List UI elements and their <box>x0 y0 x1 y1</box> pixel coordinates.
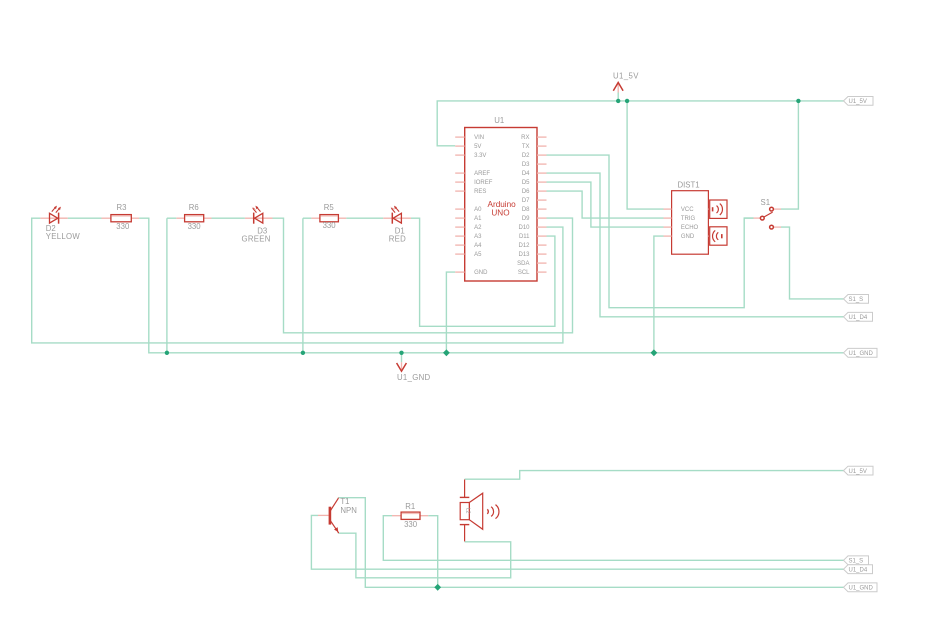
wire U1 D4 to flag U1_D4 <box>547 173 844 317</box>
wire U1_5V drop to S1 top throw <box>781 101 798 209</box>
svg-text:YELLOW: YELLOW <box>46 232 81 241</box>
LED D2 YELLOW <box>40 206 80 241</box>
svg-text:D2: D2 <box>522 153 530 159</box>
svg-text:5V: 5V <box>474 144 481 150</box>
svg-text:A1: A1 <box>474 216 482 222</box>
svg-text:A2: A2 <box>474 225 482 231</box>
U1 left pin stubs <box>455 137 465 272</box>
wire U1 D6 to DIST1 TRIG <box>547 191 664 218</box>
svg-text:R1: R1 <box>405 502 415 511</box>
svg-text:GND: GND <box>681 234 695 240</box>
net flag U1_GND bottom <box>844 583 878 592</box>
svg-text:U1_5V: U1_5V <box>849 469 867 475</box>
sensor DIST1 <box>664 180 728 254</box>
net flag U1_D4 bottom <box>844 565 873 574</box>
op-amp U1 Arduino UNO <box>465 116 537 281</box>
svg-text:VCC: VCC <box>681 207 694 213</box>
wire S1 common stub <box>744 217 753 219</box>
svg-text:A4: A4 <box>474 243 482 249</box>
svg-text:D9: D9 <box>522 216 530 222</box>
svg-text:A0: A0 <box>474 207 482 213</box>
svg-text:U1_D4: U1_D4 <box>849 568 868 574</box>
svg-text:RES: RES <box>474 189 486 195</box>
svg-text:L2: L2 <box>465 508 471 514</box>
resistor R5 <box>311 203 346 230</box>
wire T1 collector to flag U1_GND bottom <box>338 498 843 588</box>
svg-text:VIN: VIN <box>474 135 484 141</box>
svg-text:SDA: SDA <box>517 261 529 267</box>
svg-text:D13: D13 <box>518 252 530 258</box>
svg-text:D5: D5 <box>522 180 530 186</box>
wire R6 to D3 wiring <box>212 217 245 219</box>
svg-text:S1_S: S1_S <box>849 559 864 565</box>
junction dot bottom rail <box>434 584 441 591</box>
svg-text:330: 330 <box>188 222 202 231</box>
svg-text:D10: D10 <box>518 225 530 231</box>
svg-text:U1_GND: U1_GND <box>849 586 874 592</box>
svg-text:AREF: AREF <box>474 171 490 177</box>
svg-text:U1: U1 <box>494 116 504 125</box>
power flag U1_GND arrow <box>397 353 431 382</box>
svg-text:U1_5V: U1_5V <box>613 72 639 81</box>
svg-text:3.3V: 3.3V <box>474 153 486 159</box>
svg-text:U1_GND: U1_GND <box>849 351 874 357</box>
svg-text:D4: D4 <box>522 171 530 177</box>
svg-text:D8: D8 <box>522 207 530 213</box>
svg-text:R5: R5 <box>324 203 335 212</box>
wire DIST1 GND leg to ground rail <box>654 236 664 353</box>
svg-text:RX: RX <box>521 135 529 141</box>
LED D1 RED <box>383 206 411 244</box>
svg-text:T1: T1 <box>340 497 349 506</box>
svg-text:RED: RED <box>389 234 406 243</box>
U1 right pin labels <box>517 135 530 276</box>
wire speaker top to flag U1_5V bottom <box>465 471 844 480</box>
speaker LS <box>460 480 499 542</box>
wire R5 left leg to ground rail <box>303 218 312 353</box>
svg-text:S1: S1 <box>761 198 771 207</box>
wire U1_5V top rail <box>437 101 843 146</box>
net flag U1_GND top <box>844 348 878 357</box>
resistor R3 <box>102 203 140 231</box>
junction dots ground rail <box>165 349 658 356</box>
net flag U1_5V bottom <box>844 466 874 475</box>
svg-text:U1_5V: U1_5V <box>849 99 867 105</box>
wire ground rail R3 to flag U1_GND <box>139 218 843 353</box>
wire U1 D9 to D3 anode <box>273 218 573 333</box>
svg-text:IOREF: IOREF <box>474 180 493 186</box>
net flag U1_5V top <box>844 97 874 106</box>
svg-text:A3: A3 <box>474 234 482 240</box>
LED D3 GREEN <box>242 206 273 244</box>
svg-text:D11: D11 <box>519 234 530 240</box>
svg-text:R6: R6 <box>189 203 199 212</box>
wire U1 D11 to D1 anode <box>411 218 555 326</box>
svg-text:330: 330 <box>323 221 337 230</box>
svg-text:U1_D4: U1_D4 <box>849 315 868 321</box>
switch S1 <box>754 198 782 229</box>
svg-text:SCL: SCL <box>518 270 530 276</box>
svg-text:R3: R3 <box>117 203 127 212</box>
wire T1 base to flag U1_D4 bottom <box>311 515 843 569</box>
resistor R6 <box>167 203 212 231</box>
resistor R1 <box>392 502 428 529</box>
svg-text:GREEN: GREEN <box>242 234 271 243</box>
power flag U1_5V arrow <box>613 72 639 101</box>
svg-text:A5: A5 <box>474 252 482 258</box>
wire U1 D10 to D2 anode <box>32 218 563 343</box>
wire U1 GND pin to ground rail <box>446 272 455 353</box>
wire R5 to D1 wiring <box>346 217 383 219</box>
svg-text:S1_S: S1_S <box>849 297 864 303</box>
svg-text:ECHO: ECHO <box>681 225 699 231</box>
svg-text:UNO: UNO <box>491 208 509 217</box>
wire U1_5V drop to DIST1 VCC <box>627 101 663 209</box>
svg-text:D3: D3 <box>522 162 530 168</box>
junction dots top rail <box>616 99 801 103</box>
wire S1 bottom throw to flag S1_S <box>781 227 844 299</box>
svg-text:D12: D12 <box>518 243 530 249</box>
net flag U1_D4 top <box>844 312 873 321</box>
net flag S1_S bottom <box>844 556 869 565</box>
svg-text:DIST1: DIST1 <box>678 180 700 189</box>
svg-text:TX: TX <box>522 144 530 150</box>
svg-text:U1_GND: U1_GND <box>397 373 430 382</box>
wire U1 D5 to DIST1 ECHO <box>547 182 664 227</box>
svg-text:330: 330 <box>116 222 130 231</box>
net flag S1_S top <box>844 295 869 304</box>
U1 left pin labels <box>474 135 493 276</box>
svg-text:330: 330 <box>404 520 418 529</box>
svg-text:D7: D7 <box>522 198 530 204</box>
svg-text:GND: GND <box>474 270 488 276</box>
wire R6 left leg to ground rail <box>166 218 168 353</box>
svg-text:NPN: NPN <box>340 506 356 515</box>
U1 right pin stubs <box>537 137 547 272</box>
wire D2 anode to R3 wiring <box>68 217 102 219</box>
svg-text:TRIG: TRIG <box>681 216 696 222</box>
wire R1 right to ground rail bottom <box>428 516 438 588</box>
transistor T1 NPN <box>318 497 357 533</box>
wire U1 D2 to S1 common <box>547 155 754 308</box>
wire T1 emitter to speaker bottom <box>338 533 510 578</box>
wire R1 left to flag S1_S bottom <box>383 516 843 561</box>
svg-text:D6: D6 <box>522 189 530 195</box>
